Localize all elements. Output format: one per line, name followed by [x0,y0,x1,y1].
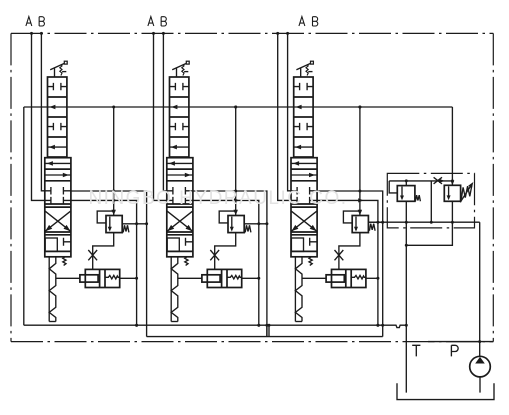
flow arrow box 2 (neutral bypass), section 3 [296,105,302,110]
wire: check valve CV3 inlet [302,277,326,279]
closed-port symbols box 1, section 3 [294,83,313,90]
port label B3 [313,17,318,26]
return spring (long), section 3 [295,257,302,322]
spool end box, section 1 [45,238,71,252]
port label P [451,345,458,356]
return spring (long), section 2 [171,257,178,322]
flow arrow row left, section 2 [167,161,193,166]
flow arrow box 2 (neutral bypass), section 2 [171,105,177,110]
directional spool valve V1 upper positions [48,77,67,157]
port label B1 [39,17,44,26]
wire: P supply bottom line [368,221,481,357]
wire: main relief U2 drain loop [405,201,454,247]
lever operator with detent, section 1 [50,61,67,77]
tank reservoir [397,383,494,399]
wire: tank gallery with break symbol [24,324,408,328]
wire: relief R3 spring sense line [369,221,385,224]
inlet relief assembly enclosure (dash-dot) [387,173,474,228]
port relief valve R1 body [106,216,122,233]
wire: relief R1 drain to check valve [93,233,114,270]
lever operator with detent, section 3 [296,61,313,77]
flow arrow row right, section 2 [167,173,193,178]
wire: relief R2 drain to check valve [215,233,236,270]
unloading pilot valve U1 body [397,181,415,201]
wire: port B2 line [162,32,167,191]
directional spool valve V3 upper positions [294,77,313,157]
flow arrow box 2 (neutral bypass), section 1 [49,105,55,110]
port relief valve R2 pilot bracket [219,211,236,223]
spool end box, section 3 [291,238,317,252]
port label B2 [161,17,166,26]
wire: B3 work line to outer rail [317,190,383,337]
work-port closed symbols, section 2 [167,187,193,204]
wire: pilot valve U1 drain to tank port T [405,201,407,392]
work-port closed symbols, section 1 [45,187,71,204]
wire: B2 work line to outer rail [193,190,267,337]
port label A1 [26,17,32,26]
port relief valve R1 pilot bracket [97,211,114,223]
wire: port B1 line [40,32,45,191]
port label T [412,345,420,356]
port label A2 [148,17,154,26]
flow arrow row right, section 3 [291,173,317,178]
flow arrow row left, section 1 [45,161,71,166]
hydraulic pump P1 [470,356,491,392]
fixed orifice (throttle X), section 2 [210,250,219,260]
flow arrow box 4, section 1 [48,145,67,150]
small centering spring, section 1 [63,257,66,266]
wire: check valve CV1 outlet [120,277,138,280]
wire: check valve CV1 inlet [56,277,80,279]
wire: pilot manifold line [389,179,452,183]
load check valve CV2 [202,269,242,287]
flow arrow box 4, section 3 [294,145,313,150]
port relief valve R3 feed line [358,106,362,216]
port relief valve R2 body [228,216,244,233]
closed-port symbols box 1, section 2 [170,83,189,90]
wire: orifice branch to drain [430,181,433,224]
wire: check valve CV2 outlet [242,277,261,280]
solid segment of bottom boundary [428,341,493,343]
closed-port symbols box 3, section 1 [48,123,67,130]
wire: check valve CV3 outlet [366,277,380,280]
port relief valve R3 spring [369,224,375,231]
wire: relief R3 drain to check valve [339,233,360,270]
port relief valve R3 pilot bracket [343,211,360,223]
wire: port A1 line [30,32,45,201]
closed-port symbols box 3, section 2 [170,123,189,130]
wire: B1 work line to outer rail [71,190,147,337]
closed-port symbols box 3, section 3 [294,123,313,130]
work-port closed symbols, section 3 [291,187,317,204]
fixed orifice (throttle X), section 3 [335,250,344,260]
crossed-flow box (X), section 1 [45,211,70,231]
spool end box, section 2 [167,238,193,252]
closed-port symbols box 1, section 1 [48,83,67,90]
port relief valve R2 feed line [234,106,238,216]
wire: supply drop from gallery to main relief [451,107,455,185]
assembly boundary (dash-dot enclosure) [11,33,493,341]
lever operator with detent, section 2 [172,61,189,77]
main relief valve U2 adjustable spring [460,182,473,202]
wire: pump pressure gallery (neutral bypass line) [24,106,453,109]
wire: port A3 line [276,32,291,201]
wire: A1 work line to inner rail [71,198,138,326]
wire: carry-over under-loop [147,325,383,336]
port relief valve R1 spring [123,225,129,232]
wire: port A2 line [152,32,167,201]
directional spool valve V2 upper positions [170,77,189,157]
flow arrow row left, section 3 [291,161,317,166]
fixed orifice (throttle X), section 1 [88,250,97,260]
directional spool valve V3 lower body [291,158,317,257]
port relief valve R2 spring [245,225,251,232]
crossed-flow box (X), section 3 [291,211,316,231]
svg-text:NINGBO HYDRAULIC CO.: NINGBO HYDRAULIC CO. [88,188,347,209]
return spring (long), section 1 [49,257,56,322]
port label A3 [299,17,305,26]
port relief valve R3 body [352,216,368,233]
flow arrow row right, section 1 [45,173,71,178]
flow arrow box 4, section 2 [170,145,189,150]
wire: check valve CV2 inlet [178,277,202,279]
crossed-flow box (X), section 2 [167,211,192,231]
unloading pilot valve U1 pilot bracket [389,181,397,193]
port relief valve R1 feed line [112,106,116,216]
wire: port B3 line [286,32,291,191]
wire: left return rail [23,107,25,325]
directional spool valve V1 lower body [45,158,71,257]
main relief valve U2 body [444,185,460,201]
directional spool valve V2 lower body [167,158,193,257]
small centering spring, section 2 [185,257,188,266]
unloading pilot valve U1 spring [415,195,420,201]
load check valve CV3 [326,269,366,287]
fixed orifice X on pilot line [434,177,442,184]
wire: A2 work line to inner rail [193,198,260,326]
wire: relief R1 spring sense line [122,222,148,225]
small centering spring, section 3 [309,257,312,266]
load check valve CV1 [80,269,120,287]
wire: relief R2 spring sense line [244,222,268,225]
wire: A3 work line to inner rail [317,198,379,326]
watermark [88,188,347,209]
